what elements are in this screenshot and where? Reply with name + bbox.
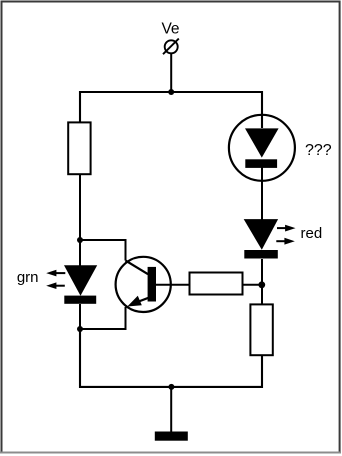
wire red LED to node C	[261, 259, 263, 304]
LED D2 red triangle	[244, 219, 278, 250]
mystery diode U1 circle	[229, 115, 295, 181]
transistor Q1 circle	[116, 257, 171, 312]
wire node A to Q1 collector	[80, 240, 126, 261]
LED D2 light arrow upper	[277, 225, 296, 232]
wire R1 to node A	[79, 175, 81, 240]
node A junction dot	[77, 237, 83, 243]
LED D1 light arrow lower	[46, 282, 65, 289]
svg-text:grn: grn	[17, 269, 39, 286]
node GND junction dot	[168, 384, 174, 390]
junction dot top rail	[168, 89, 174, 95]
LED D1 light arrow upper	[46, 270, 65, 277]
LED D1 grn cathode bar	[64, 296, 96, 304]
wire to ground	[170, 387, 172, 432]
svg-text:red: red	[301, 225, 323, 242]
mystery diode U1 triangle	[245, 128, 279, 157]
ground symbol	[155, 432, 188, 441]
resistor R3 (right)	[250, 304, 272, 355]
transistor Q1 emitter stroke	[136, 298, 149, 303]
node C junction dot	[258, 281, 265, 288]
wire green LED to node B	[79, 304, 81, 329]
wire Ve to top rail	[170, 53, 172, 92]
node B junction dot	[77, 326, 83, 332]
svg-text:???: ???	[305, 142, 332, 159]
wire Q1 emitter to node B	[80, 307, 126, 329]
wire Q1 base to R2	[156, 284, 189, 286]
LED D2 red cathode bar	[244, 250, 277, 259]
LED D1 grn triangle	[64, 265, 97, 296]
wire mystery diode to red LED	[261, 166, 263, 220]
transistor Q1 collector stroke	[126, 261, 149, 275]
power terminal Ve	[163, 39, 179, 55]
wire node A to green LED	[79, 240, 81, 266]
wire top rail	[80, 92, 262, 128]
wire bottom rail	[80, 329, 262, 387]
mystery diode U1 cathode bar	[245, 159, 277, 168]
LED D2 light arrow lower	[276, 238, 295, 245]
resistor R2 (base)	[190, 273, 243, 295]
svg-text:Ve: Ve	[161, 21, 179, 38]
transistor Q1 base bar	[148, 267, 156, 302]
wire R2 to node C	[243, 284, 262, 286]
transistor Q1 emitter arrowhead	[127, 296, 142, 307]
resistor R1 (left)	[68, 122, 90, 174]
